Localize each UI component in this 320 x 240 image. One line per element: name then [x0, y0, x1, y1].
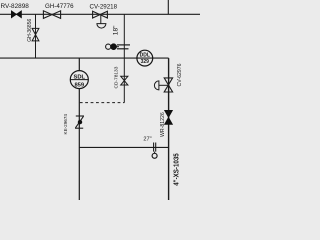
wire V1 branch GH-36856 [35, 14, 37, 58]
svg-text:KE-29674: KE-29674 [63, 114, 68, 135]
svg-text:WR-81226: WR-81226 [160, 112, 166, 137]
instrument bubble DDL 329 [137, 50, 153, 66]
wire V4 top right riser [167, 0, 169, 14]
svg-text:27": 27" [143, 137, 151, 143]
svg-text:DDL: DDL [140, 53, 150, 59]
valve CV-29218 (open bowtie with diaphragm below) [93, 11, 108, 18]
valve GH-47776 (open bowtie) [43, 11, 60, 19]
svg-text:CV-29218: CV-29218 [90, 3, 118, 10]
svg-text:GH-36856: GH-36856 [27, 19, 33, 42]
svg-text:18": 18" [113, 25, 120, 35]
valve WR-81226 (filled vertical bowtie) [165, 110, 173, 124]
spectacle bars on V3 [117, 44, 130, 46]
wire H1 top header line [0, 13, 200, 15]
wire V2 left down line [78, 58, 80, 71]
svg-text:CV-62976: CV-62976 [177, 63, 183, 86]
valve GH-36856 (vertical open bowtie) [32, 28, 39, 41]
svg-text:GH-47776: GH-47776 [45, 3, 74, 10]
wire H3 lower cross line [79, 146, 168, 148]
spectacle bars on H3 with drain circle [153, 143, 155, 152]
valve CD-78133 (vertical open bowtie) [121, 76, 128, 85]
svg-text:RV-82898: RV-82898 [1, 3, 30, 10]
wire H4 dashed signal line [80, 102, 125, 104]
svg-text:329: 329 [141, 59, 150, 65]
wire H2 mid header line [0, 57, 169, 59]
svg-text:CD-78133: CD-78133 [114, 66, 120, 88]
svg-text:SDL: SDL [73, 74, 85, 80]
vent circles open+filled [106, 44, 111, 49]
instrument bubble SDL 859 [70, 71, 88, 89]
valve KE-29674 (butterfly) [76, 115, 84, 117]
svg-text:859: 859 [74, 82, 84, 88]
wire V5 right down line 4"-XS-1035 [168, 58, 170, 200]
svg-text:4"-XS-1035: 4"-XS-1035 [173, 153, 181, 186]
wire V3 branch 18in [123, 14, 125, 102]
valve CV-62976 (vertical open bowtie with side actuator) [164, 78, 172, 92]
valve RV-82898 (filled bowtie) [11, 11, 21, 18]
